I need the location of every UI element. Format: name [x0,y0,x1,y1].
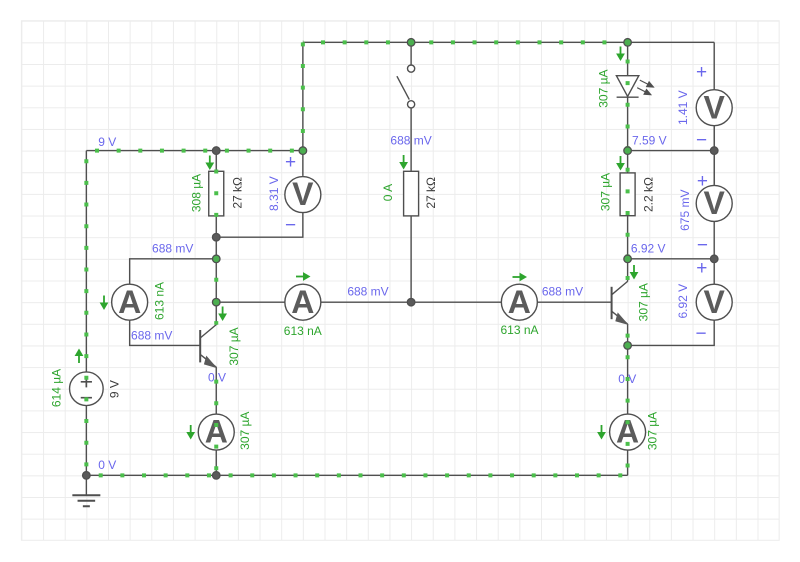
svg-text:614 µA: 614 µA [50,369,64,407]
wire mid rail segment 1 [216,301,285,303]
svg-text:307 µA: 307 µA [646,412,660,450]
current dots Q1 emitter branch [214,367,218,475]
svg-text:675 mV: 675 mV [678,190,692,231]
svg-text:V: V [704,284,726,320]
svg-text:A: A [508,284,531,320]
svg-text:688 mV: 688 mV [131,329,172,343]
svg-text:7.59 V: 7.59 V [632,133,667,147]
svg-text:27 kΩ: 27 kΩ [424,177,438,209]
node rail-R1 junction [212,147,220,155]
wire switch branch upper [410,42,412,65]
current arrow loop ammeter M1 [100,296,109,311]
svg-text:613 nA: 613 nA [500,323,538,337]
current arrow R3 [616,156,625,171]
current arrow battery [75,349,84,364]
svg-text:0 A: 0 A [381,184,395,201]
svg-text:688 mV: 688 mV [152,242,193,256]
voltmeter V4 6.92V [696,284,732,320]
node right column V2-V3 junction [710,255,718,263]
ammeter M5 307uA [610,414,646,450]
current arrow Q1 collector [218,307,227,322]
node mid rail switch branch junction [407,298,415,306]
resistor R3 2.2k body [620,173,635,216]
svg-text:1.41 V: 1.41 V [676,90,690,125]
wire 2.2k branch [627,151,629,259]
wire top rail [303,41,714,43]
svg-text:688 mV: 688 mV [542,284,583,298]
svg-text:−: − [695,324,706,345]
node top rail LED junction [624,39,632,47]
svg-text:27 kΩ: 27 kΩ [230,177,244,209]
svg-text:308 µA: 308 µA [190,174,204,212]
svg-text:307 µA: 307 µA [599,173,613,211]
wire Q2 collector stub [627,259,629,282]
svg-text:+: + [696,258,707,279]
svg-text:613 nA: 613 nA [284,324,322,338]
node right column V1-V2 junction [710,147,718,155]
svg-text:2.2 kΩ: 2.2 kΩ [641,177,655,212]
node R1 bottom voltmeter junction [212,233,220,241]
current dots LED branch [626,42,630,281]
ground [72,475,100,506]
ammeter M2 mid rail 613nA [285,284,321,320]
current arrow mid ammeter M3 [513,273,528,282]
current arrow LED [616,47,625,62]
current arrow R1 [205,156,214,171]
svg-text:0 V: 0 V [618,372,636,386]
voltmeter V1 8.31V [285,176,321,212]
svg-text:−: − [696,130,707,151]
current dots bottom rail [86,473,627,477]
node mid rail Q1 collector junction [212,298,220,306]
wire voltmeter V1 branch [216,151,303,238]
svg-text:6.92 V: 6.92 V [631,242,666,256]
node LED-R3 junction 7.59V [624,147,632,155]
wire LED branch lower [627,97,629,150]
svg-text:307 µA: 307 µA [597,69,611,107]
svg-text:688 mV: 688 mV [390,134,431,148]
svg-text:A: A [118,284,141,320]
ammeter M1 base loop 613nA [112,284,148,320]
current dots battery column [84,151,88,476]
svg-text:0 V: 0 V [98,458,116,472]
svg-text:307 µA: 307 µA [227,327,241,365]
svg-text:8.31 V: 8.31 V [267,176,281,211]
wire battery branch left column [85,151,87,476]
resistor R1 27k body [209,171,224,216]
svg-text:V: V [292,176,314,212]
svg-text:+: + [697,171,708,192]
wire right column top [713,42,715,89]
svg-text:A: A [205,414,228,450]
switch SW1 open [397,65,415,108]
wire LED branch upper [627,42,629,75]
wire right column V1-V2 [628,126,715,184]
wire base loop of Q1 [130,259,217,346]
current dots riser [301,42,305,150]
resistor R2 27k body [404,171,419,216]
svg-text:+: + [285,152,296,173]
svg-text:V: V [704,89,726,125]
svg-text:9 V: 9 V [107,380,121,398]
voltage source B1 9V [70,372,104,406]
current dots Q2 emitter branch [626,324,630,475]
wire mid rail segment 3 [537,301,611,303]
current arrow R2 [399,155,408,170]
svg-text:+: + [696,62,707,83]
node R3-Q2 junction 6.92V [624,255,632,263]
wire switch branch lower [410,108,412,302]
svg-text:307 µA: 307 µA [637,283,651,321]
current arrow mid ammeter M2 [296,272,311,281]
svg-text:A: A [291,284,314,320]
wire V1 bottom stub [713,126,715,151]
ammeter M4 307uA [198,414,234,450]
current arrow bottom ammeter M5 [597,425,606,440]
svg-text:−: − [285,215,296,236]
wire right column V2-V3 [628,221,715,284]
current dots top rail [303,40,628,44]
svg-text:9 V: 9 V [98,135,116,149]
wire right column V3 bottom [628,320,715,345]
voltmeter V3 675mV [696,185,732,221]
current arrow Q2 collector [630,265,639,280]
wire Q1 emitter down through ammeter to rail [215,367,217,475]
LED D1 [616,76,653,98]
svg-text:6.92 V: 6.92 V [676,284,690,319]
wire R1 branch node rail to Q1 collector [215,151,217,325]
current arrow bottom ammeter M4 [186,425,195,440]
node top rail switch junction [407,39,415,47]
wire mid rail segment 2 [321,301,502,303]
svg-text:613 nA: 613 nA [153,282,167,320]
wire V2 top stub [713,151,715,185]
voltmeter V2 1.41V [696,89,732,125]
node Q2 emitter junction [624,342,632,350]
current dots R1 branch [214,151,218,325]
wire 9V rail from battery to node D [86,150,303,152]
svg-text:0 V: 0 V [208,370,226,384]
ammeter M3 mid rail 613nA [501,284,537,320]
wire riser node D to top rail [302,42,304,150]
svg-text:307 µA: 307 µA [238,412,252,450]
node bottom rail ground junction [83,472,91,480]
wire Q2 emitter to ammeter to bottom rail [627,345,629,475]
wire Q2 emitter stub [627,324,629,346]
node bottom rail Q1 branch junction [212,472,220,480]
node base loop top junction [212,255,220,263]
transistor Q2 NPN [612,281,629,325]
node rail-riser junction [299,147,307,155]
current dots 9V rail [86,149,303,153]
svg-text:−: − [697,235,708,256]
wire bottom rail [86,474,627,476]
svg-text:688 mV: 688 mV [347,284,388,298]
transistor Q1 NPN [200,325,217,369]
